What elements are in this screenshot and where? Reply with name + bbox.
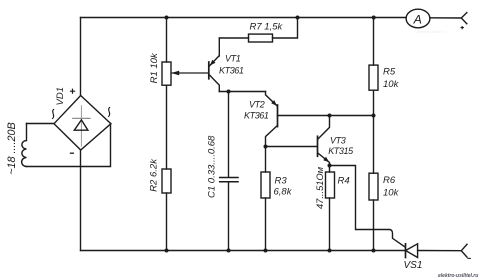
junction node VT1 collector C1 [227,90,231,94]
svg-text:KT315: KT315 [328,146,354,156]
junction node bottom rail R4 [328,249,332,253]
resistor R6 body [369,173,378,200]
junction node VT2 base divider [372,114,376,118]
plus terminal sign [461,26,464,29]
wire VT1 collector to VT2 emitter [219,91,265,93]
wire R3 to bottom rail [265,198,267,251]
wire VT3 emitter to R4 [329,166,331,173]
svg-text:VT1: VT1 [225,53,241,63]
minus output terminal [461,244,467,257]
transistor VT2 KT361 [266,92,278,147]
bridge rectifier VD1 diamond [54,96,111,151]
AC squiggle left [53,110,54,119]
svg-text:VT3: VT3 [330,135,346,145]
junction node bottom rail R6 [372,249,376,253]
junction node bottom rail R3 [264,249,268,253]
wire VT2 collector node to VT3 base [266,146,318,148]
svg-text:VD1: VD1 [55,87,66,105]
wire bridge minus corner to bottom rail [80,150,82,251]
svg-text:R1 10k: R1 10k [149,52,160,83]
wire R6 to bottom rail [373,200,375,251]
svg-text:VS1: VS1 [404,260,423,271]
junction node top rail R5 [372,16,376,20]
svg-text:R6: R6 [383,175,396,186]
thyristor VS1 triangle [406,244,418,258]
wire R2 to bottom rail [166,193,168,251]
resistor R2 body [162,169,171,193]
svg-text:KT361: KT361 [244,110,269,120]
transformer winding [22,124,27,167]
svg-text:elektro-usilitel.ru: elektro-usilitel.ru [438,273,478,279]
wire VT2 base to R5R6 divider [278,115,374,117]
resistor R5 body [369,65,378,90]
wire coil bottom to bridge right corner [27,124,111,167]
potentiometer R1 body [162,62,171,85]
svg-text:A: A [413,12,422,26]
svg-text:VT2: VT2 [249,100,265,110]
wire R7 to top rail [273,18,298,39]
svg-text:elektro usilitel ru: elektro usilitel ru [417,29,447,34]
wire R1 to R2 [166,85,168,169]
diode lead line inside VD1 [80,106,82,146]
wire R5 to R6 [373,90,375,173]
svg-text:KT361: KT361 [219,66,244,76]
wire bridge plus corner to top rail [80,18,82,96]
svg-text:C1 0.33....0.68: C1 0.33....0.68 [206,135,217,198]
top rail [81,17,407,19]
svg-text:6,8k: 6,8k [274,187,293,198]
junction node top rail R7 [296,16,300,20]
svg-text:10k: 10k [383,188,400,199]
minus terminal sign [467,257,471,259]
svg-text:R3: R3 [275,176,288,187]
svg-text:10k: 10k [383,79,400,90]
ammeter A body [406,9,430,28]
junction node VT2 collector [264,145,268,149]
resistor R7 body [249,34,273,42]
bottom rail [81,250,405,252]
wire ammeter to plus terminal [430,17,461,19]
wire top rail to R1 [166,18,168,63]
svg-text:R4: R4 [338,176,350,187]
capacitor C1 plates [220,178,238,182]
junction node bottom rail R2 [165,249,169,253]
resistor R3 body [261,172,270,198]
wire top rail to R5 [373,18,375,66]
wire coil top to bridge left corner [27,123,55,125]
wire VT2 collector to R3 [265,147,267,173]
junction node bottom rail C1 [227,249,231,253]
wire C1 to bottom rail [228,182,230,251]
plus output terminal [461,13,467,24]
wire node to C1 [228,92,230,178]
R1 wiper arrowhead [171,71,179,76]
wire VT1 emitter to R7 [219,37,248,39]
junction node top rail R1 [165,16,169,20]
wire VS1 to minus terminal [418,250,462,252]
R1 wiper wire to VT1 base [172,72,208,74]
bridge minus mark [70,152,74,154]
transistor VT1 KT361 [209,38,220,92]
svg-text:47...51Ом: 47...51Ом [315,166,325,209]
svg-text:~18 ....20В: ~18 ....20В [6,122,18,175]
svg-text:R2 6.2k: R2 6.2k [149,158,160,192]
wire R4 to bottom rail [329,198,331,251]
diode cathode bar inside VD1 [73,117,90,119]
thyristor VS1 cathode bar [405,244,407,258]
bridge plus mark [70,89,75,94]
junction node VT3 collector [328,114,332,118]
junction node VT3 emitter [328,164,332,168]
transistor VT3 KT315 [318,116,330,166]
svg-text:R5: R5 [383,67,396,78]
AC squiggle right [109,108,110,117]
wire VT3 emitter to VS1 gate [330,166,405,247]
svg-text:R7 1,5k: R7 1,5k [250,22,284,33]
resistor R4 body [326,172,335,198]
diode triangle inside VD1 [74,120,88,130]
